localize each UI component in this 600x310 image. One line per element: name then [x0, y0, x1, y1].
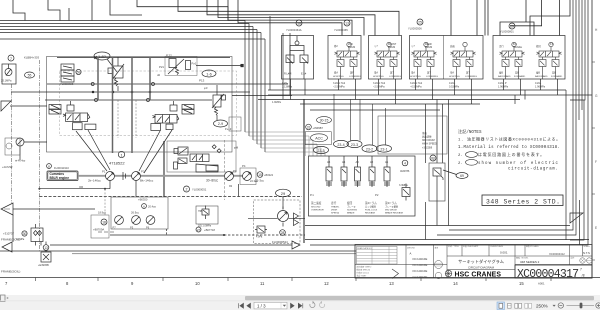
wire feeder right pair	[485, 0, 488, 36]
right riser 5	[570, 0, 585, 100]
svg-text:23-1: 23-1	[380, 147, 387, 151]
svg-text:HIGH SPEED: HIGH SPEED	[422, 143, 437, 146]
svg-text:A: A	[143, 205, 145, 209]
pump P4	[243, 172, 252, 181]
svg-text:巻2: 巻2	[334, 44, 338, 48]
shuttle triangles	[294, 213, 299, 226]
layout icon continuous	[508, 303, 512, 308]
page corner icon	[1, 295, 6, 302]
aux box right	[229, 117, 241, 131]
svg-text:1 / 3: 1 / 3	[257, 303, 266, 308]
brake valve	[433, 168, 441, 176]
valve unit front drum	[373, 42, 401, 88]
layout icon single selected	[497, 302, 505, 310]
svg-text:第T: 第T	[390, 71, 394, 75]
svg-text:23-5: 23-5	[317, 149, 324, 153]
wire valve B stems	[117, 57, 119, 91]
svg-text:1-6: 1-6	[206, 72, 212, 76]
wire staircase D	[228, 0, 352, 36]
valve unit travel backward	[498, 42, 526, 88]
svg-text:DWG.NO: DWG.NO	[407, 248, 416, 250]
right riser 3	[578, 0, 580, 120]
svg-text:93: 93	[229, 184, 233, 188]
svg-text:3.3MPa: 3.3MPa	[399, 184, 408, 187]
svg-text:YL0000465: YL0000465	[334, 28, 348, 32]
inner dashed boundary	[60, 71, 237, 136]
svg-text:FRAME(SOIL): FRAME(SOIL)	[1, 270, 20, 274]
svg-text:第F: 第F	[350, 71, 354, 75]
bank valve 3	[355, 156, 361, 187]
svg-text:B5LR engine: B5LR engine	[50, 176, 70, 180]
node 8 circle	[47, 164, 52, 169]
svg-text:OR: OR	[79, 185, 83, 189]
wire diag L2	[88, 130, 110, 170]
vertical bundle line 3	[252, 27, 254, 141]
title grid verticals	[406, 245, 515, 279]
check valve pair L	[49, 105, 61, 110]
node 30-15 callout	[317, 117, 332, 124]
port circle d	[147, 99, 150, 102]
bank valve 2	[341, 156, 347, 187]
bank relief valve	[402, 188, 410, 197]
svg-text:Fv~3: Fv~3	[225, 127, 232, 131]
cert stamp a	[580, 258, 585, 263]
valve unit rear drum	[410, 42, 438, 88]
wire top feeder a	[13, 0, 25, 21]
svg-text:8β: 8β	[431, 157, 435, 161]
svg-text:HOISTING: HOISTING	[410, 76, 421, 78]
rail 4 short	[232, 95, 292, 97]
btn prev page	[247, 303, 251, 308]
svg-text:P4: P4	[242, 164, 246, 168]
bundle jogs to valve bank	[245, 132, 325, 156]
svg-text:YL0000051: YL0000051	[192, 188, 207, 192]
node 27 circle	[196, 227, 201, 232]
node 13 circle	[43, 245, 49, 251]
svg-text:CLASS/CLASS: CLASS/CLASS	[490, 245, 504, 248]
node 23-5 callout	[314, 146, 329, 153]
svg-text:13: 13	[44, 246, 48, 250]
rail E	[310, 109, 440, 111]
svg-text:φ3: φ3	[204, 86, 208, 90]
svg-text:後B: 後B	[499, 71, 503, 75]
bank valve 5	[384, 156, 390, 187]
svg-text:P7: P7	[113, 226, 117, 230]
svg-text:4.9Pa: 4.9Pa	[256, 236, 263, 239]
rail D	[300, 103, 480, 105]
section dash boundary	[224, 140, 226, 200]
port circle c	[95, 99, 98, 102]
svg-text:76B: 76B	[198, 210, 203, 213]
svg-text:走行: 走行	[499, 44, 504, 48]
chevron mark	[392, 269, 399, 279]
hose pair 4	[149, 57, 151, 100]
wire top right jog	[530, 0, 570, 36]
svg-text:show number of electric: show number of electric	[478, 161, 559, 166]
viewer chrome background	[0, 295, 600, 310]
node 30 circle	[22, 231, 27, 236]
solenoid box 2	[328, 36, 361, 80]
pilot cap L	[67, 105, 74, 111]
wire from tank top	[10, 105, 47, 107]
svg-text:FORWARD: FORWARD	[551, 75, 563, 78]
bus line 1	[0, 20, 245, 22]
svg-text:~2.53MPa: ~2.53MPa	[333, 86, 345, 89]
svg-text:18: 18	[102, 221, 106, 225]
svg-text:N.T.S: N.T.S	[583, 251, 590, 255]
tank triangle lower	[2, 242, 12, 252]
wire dash from P1	[104, 189, 106, 215]
cylinder R	[151, 124, 161, 131]
svg-text:(HIGH: (HIGH	[331, 210, 338, 212]
valve unit boom	[449, 42, 477, 88]
svg-text:高速切替: 高速切替	[422, 135, 432, 139]
rail 1	[47, 83, 288, 85]
page input field	[254, 302, 287, 309]
swing motor	[278, 211, 289, 222]
strainer box	[91, 215, 109, 238]
svg-text:第4ドラム: 第4ドラム	[365, 201, 377, 205]
zoom in icon partial	[596, 303, 600, 308]
svg-text:+B07718: +B07718	[204, 228, 215, 232]
svg-text:2.: 2.	[458, 154, 463, 158]
svg-text:+3022B9: +3022B9	[422, 147, 433, 150]
svg-text:29: 29	[281, 191, 286, 196]
svg-text:P6: P6	[146, 226, 150, 230]
wire top feeder d	[110, 0, 142, 15]
svg-text:旋回: 旋回	[347, 201, 353, 205]
svg-text:P2: P2	[141, 170, 145, 174]
svg-text:P21: P21	[159, 65, 164, 69]
pilot relief box	[196, 206, 218, 224]
bus line 5	[0, 32, 261, 34]
svg-text:ACC: ACC	[315, 137, 323, 141]
layout icon two page	[515, 303, 518, 308]
svg-text:20.4oo: 20.4oo	[148, 205, 156, 209]
pilot cap R	[170, 105, 177, 111]
wire 29 stem	[282, 197, 284, 209]
btn rotate ccw	[310, 302, 315, 307]
node 23-4 callout	[334, 140, 349, 147]
check valve pair R	[182, 105, 194, 110]
svg-text:RELEASE: RELEASE	[365, 212, 376, 215]
svg-text:3RD DRUM: 3RD DRUM	[385, 210, 397, 212]
zoom out icon	[558, 303, 563, 308]
vertical bundle line 1	[244, 21, 246, 133]
svg-text:サーキットダイヤグラム: サーキットダイヤグラム	[458, 258, 504, 265]
svg-text:P2: P2	[375, 193, 379, 197]
svg-text:P.22: P.22	[166, 54, 172, 58]
junction dot r2	[112, 91, 114, 93]
node 4 circle	[402, 160, 408, 166]
scrollbar thumb	[245, 296, 594, 300]
header labels right	[448, 244, 590, 260]
bus line 3	[0, 26, 253, 28]
svg-text:BRAKE RELEASE: BRAKE RELEASE	[385, 212, 404, 215]
valve E3995	[41, 252, 51, 262]
pump unit box left top	[2, 64, 16, 84]
note ellipse a	[466, 152, 478, 158]
pump P2	[132, 172, 141, 181]
solenoid box 4	[410, 36, 484, 80]
valve C reducing	[169, 59, 176, 68]
drawing number box	[515, 265, 592, 278]
wire center dashes	[118, 100, 136, 138]
svg-text:KD.KAWADE: KD.KAWADE	[413, 258, 428, 261]
drum speed enclosure	[378, 116, 447, 154]
hose pair 1	[97, 57, 99, 100]
wire to E3995	[45, 242, 47, 253]
wire valve C out	[196, 65, 242, 67]
node (1-6) callout	[202, 70, 216, 77]
wire top feeder b	[48, 0, 60, 21]
svg-text:22.3cc: 22.3cc	[250, 179, 258, 183]
regulator spool	[190, 154, 209, 162]
node 13 callout top	[344, 20, 350, 26]
svg-text:2: 2	[186, 188, 188, 192]
bank valve 4	[369, 156, 375, 187]
svg-text:13: 13	[345, 22, 349, 26]
cert stamp b	[587, 258, 592, 263]
svg-text:BACKWARD: BACKWARD	[498, 75, 511, 78]
svg-text:E.L#: E.L#	[301, 73, 307, 76]
svg-text:DRAW DATE NO.: DRAW DATE NO.	[357, 247, 372, 250]
svg-text:4718522: 4718522	[109, 161, 125, 166]
node 16 circle	[296, 20, 302, 26]
vertical right of bundle 1	[269, 16, 271, 90]
svg-text:15: 15	[519, 281, 524, 286]
valve C enclosure	[165, 57, 197, 76]
node 29 callout	[276, 189, 291, 197]
svg-text:P13: P13	[199, 79, 205, 83]
stamp circle 2	[435, 272, 441, 278]
svg-text:P3: P3	[233, 169, 237, 173]
node 15 circle	[257, 172, 263, 178]
valve A solenoid stack	[61, 64, 74, 70]
svg-text:CA.KAWADE: CA.KAWADE	[413, 276, 428, 279]
svg-text:FORWARD: FORWARD	[514, 75, 526, 78]
diamond a	[212, 145, 216, 149]
svg-text:25.1MPa: 25.1MPa	[1, 79, 12, 83]
svg-text:⁄8: ⁄8	[581, 274, 585, 278]
svg-text:巻A: 巻A	[334, 71, 338, 75]
tank triangle main	[1, 203, 13, 215]
wire box1 stems	[291, 79, 306, 100]
wire box5 stems	[504, 79, 558, 95]
svg-text:69: 69	[460, 174, 464, 178]
node 23-1 callout	[377, 145, 392, 152]
wire aux pump	[20, 142, 47, 160]
svg-text:4M4786: 4M4786	[400, 169, 410, 173]
svg-text:CIRCUIT-DIAGRAM: CIRCUIT-DIAGRAM	[468, 266, 495, 270]
node 1 circle	[118, 151, 124, 157]
servo piston	[196, 164, 218, 172]
svg-text:4: 4	[404, 162, 406, 166]
main valve assembly enclosure	[47, 57, 233, 153]
bank valve 1	[326, 156, 332, 187]
svg-text:LOWERING: LOWERING	[389, 76, 401, 78]
svg-text:P5: P5	[130, 226, 134, 230]
bus line 2	[0, 23, 249, 25]
vertical right of bundle 3	[289, 33, 291, 96]
svg-text:10: 10	[195, 281, 200, 286]
svg-text:27: 27	[197, 228, 201, 232]
zoom dropdown arrow	[553, 305, 556, 307]
svg-text:23-4: 23-4	[337, 143, 344, 147]
toolbar separator	[0, 300, 600, 302]
node 28 circle	[280, 230, 286, 236]
rail A	[268, 89, 566, 91]
node (2-9) callout	[214, 120, 228, 127]
pump P3	[225, 172, 234, 181]
svg-text:KD.KAWADE: KD.KAWADE	[413, 264, 428, 267]
svg-text:+3999B7: +3999B7	[313, 126, 324, 130]
solenoid box 3	[369, 36, 402, 80]
svg-text:LOWERING: LOWERING	[349, 76, 361, 78]
svg-text:YL0000506: YL0000506	[408, 27, 422, 31]
svg-text:circuit-diagram.: circuit-diagram.	[508, 167, 558, 172]
svg-text:+B0322: +B0322	[264, 173, 274, 177]
svg-text:23-3: 23-3	[351, 143, 358, 147]
svg-text:YL0000801: YL0000801	[500, 30, 514, 34]
valve B proportional	[113, 66, 123, 78]
svg-text:~2.53MPa: ~2.53MPa	[373, 86, 385, 89]
svg-text:2k~146cc: 2k~146cc	[88, 179, 101, 183]
layout icon two page scroll	[525, 303, 528, 308]
vertical bundle line 4	[256, 30, 258, 145]
wire box2 stems	[339, 79, 356, 100]
svg-text:E: E	[595, 226, 597, 230]
wire staircase C	[218, 0, 364, 36]
ACC accumulator box	[305, 132, 331, 145]
rail B	[268, 94, 592, 96]
svg-text:OVERDRIVE: OVERDRIVE	[311, 210, 324, 212]
wire staircase B	[207, 0, 375, 36]
svg-text:11: 11	[260, 281, 265, 286]
vertical right of bundle 2	[282, 33, 284, 99]
stem to 23-1	[384, 108, 386, 145]
right riser 2	[437, 0, 576, 235]
valve V5 relief	[213, 95, 221, 107]
svg-text:LOWERING: LOWERING	[426, 76, 438, 78]
svg-text:A001: A001	[538, 282, 545, 286]
svg-text:単速: 単速	[422, 131, 427, 135]
svg-text:15: 15	[258, 173, 262, 177]
btn first page	[239, 303, 244, 308]
junction dot r4	[149, 91, 151, 93]
svg-text:BRAKE: BRAKE	[347, 212, 355, 215]
node 55 callout	[25, 72, 35, 78]
wire from pump down	[11, 84, 13, 203]
svg-text:+88709A: +88709A	[93, 228, 104, 232]
svg-text:23-2: 23-2	[366, 147, 373, 151]
pump circle	[5, 69, 12, 76]
svg-text:HOISTING: HOISTING	[333, 76, 344, 78]
vertical bundle line 6	[264, 39, 266, 152]
wire bottom long	[50, 244, 292, 246]
svg-text:13: 13	[389, 281, 394, 286]
node 59 circle	[76, 69, 81, 74]
node 2 callout	[184, 186, 190, 192]
svg-text:29: 29	[510, 25, 514, 29]
svg-text:d2: d2	[157, 73, 161, 77]
svg-text:甲A: 甲A	[450, 71, 454, 75]
node 23-2 callout	[362, 145, 377, 152]
bus line 6	[0, 38, 265, 40]
wire diag L1	[76, 131, 107, 171]
wire feeder right e	[558, 0, 560, 36]
svg-text:12: 12	[324, 281, 329, 286]
sub valve 1b	[300, 55, 308, 63]
svg-text:HSC CRANES: HSC CRANES	[455, 272, 502, 279]
svg-text:単A: 単A	[411, 71, 415, 75]
spool valve L	[66, 113, 88, 122]
aux pump box P5 P6 P7	[111, 197, 168, 229]
wire top feeder e	[137, 0, 228, 21]
svg-text:走行: 走行	[331, 201, 337, 205]
wire under pumps	[110, 172, 136, 197]
svg-text:250%: 250%	[536, 304, 548, 309]
svg-text:XC00004312: XC00004312	[549, 252, 565, 256]
svg-text:FUNL LOCK: FUNL LOCK	[365, 210, 378, 212]
hose long right	[303, 99, 305, 243]
svg-text:KD.KAWADE: KD.KAWADE	[413, 270, 428, 273]
svg-text:単A: 単A	[374, 71, 378, 75]
svg-text:⊕ 4A.4oo: ⊕ 4A.4oo	[15, 160, 26, 163]
svg-text:第二速度: 第二速度	[311, 201, 322, 205]
stem to 23-2	[372, 104, 374, 145]
svg-text:SPEED): SPEED)	[331, 213, 339, 215]
svg-text:2-9: 2-9	[218, 122, 223, 126]
motor relief valve	[257, 226, 265, 233]
svg-text:R.L#M: R.L#M	[284, 73, 291, 76]
svg-text:前B: 前B	[515, 71, 519, 75]
rail C	[258, 99, 520, 101]
stamp circle 1	[435, 261, 443, 269]
title block outer	[355, 245, 592, 279]
svg-text:+B0350: +B0350	[138, 198, 148, 202]
wire leader from (1-8)	[107, 59, 117, 72]
svg-text:第T: 第T	[427, 71, 431, 75]
junction block	[241, 64, 244, 67]
hose long left	[163, 141, 165, 197]
svg-text:2.: 2.	[458, 162, 463, 166]
sheet border bottom	[0, 277, 600, 279]
348 series box	[482, 195, 563, 206]
revision mini table	[357, 247, 398, 265]
hose pair 3	[131, 57, 133, 153]
svg-text:348 Series 2 STD.: 348 Series 2 STD.	[486, 198, 560, 205]
svg-text:P.1: P.1	[310, 193, 314, 197]
HSC logo mark	[445, 270, 452, 277]
solenoid box 1	[282, 36, 314, 80]
svg-text:30~80cc: 30~80cc	[206, 179, 219, 183]
svg-text:16: 16	[297, 22, 301, 26]
svg-text:+4A7292: +4A7292	[2, 165, 13, 169]
wire pump drain b	[39, 196, 302, 198]
node 8 circle	[430, 155, 436, 161]
pump P1	[106, 172, 115, 181]
wire feeder right a	[450, 0, 452, 36]
svg-text:XC00004317: XC00004317	[517, 268, 579, 281]
svg-text:0.001: 0.001	[500, 251, 508, 255]
svg-text:SECOND: SECOND	[311, 207, 321, 209]
stem to 23-3	[350, 99, 352, 140]
sub valve 1a	[286, 55, 294, 63]
svg-text:高速: 高速	[450, 44, 455, 48]
btn next page	[291, 303, 295, 308]
svg-text:1.Material is referred to XC00: 1.Material is referred to XC00004318.	[458, 145, 560, 150]
